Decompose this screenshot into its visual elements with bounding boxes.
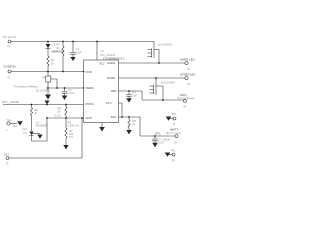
wire divider node rail bbox=[47, 117, 84, 119]
svg-text:J8: J8 bbox=[172, 159, 175, 163]
svg-text:BT1: BT1 bbox=[156, 132, 162, 136]
ground under C1 bbox=[70, 57, 75, 61]
node BAT+ test point bbox=[178, 93, 195, 109]
svg-text:TP4: TP4 bbox=[7, 118, 12, 122]
ground under R7 bbox=[63, 145, 69, 149]
svg-text:BAT+_SENSE: BAT+_SENSE bbox=[2, 100, 19, 104]
svg-text:TP1: TP1 bbox=[172, 112, 177, 116]
resistor R7 bbox=[65, 118, 74, 145]
capacitor C1 bbox=[70, 42, 82, 58]
node TP2 with ground bbox=[165, 149, 176, 163]
svg-text:BAT: BAT bbox=[111, 115, 117, 119]
capacitor C3 bbox=[62, 88, 75, 96]
resistor R6 bbox=[58, 105, 68, 119]
svg-text:1%: 1% bbox=[23, 131, 27, 135]
wire NTC pin routing bbox=[119, 103, 123, 117]
wire top +12V rail bbox=[11, 41, 154, 43]
svg-text:J1: J1 bbox=[7, 44, 10, 48]
svg-text:CHRG-LED: CHRG-LED bbox=[180, 58, 195, 62]
svg-text:CHRG: CHRG bbox=[107, 61, 115, 65]
svg-text:MBR0520: MBR0520 bbox=[52, 50, 65, 54]
svg-text:DONE: DONE bbox=[107, 76, 115, 80]
node top rail junctions bbox=[47, 41, 49, 43]
svg-text:J5: J5 bbox=[187, 82, 190, 86]
node TP1 with ground bbox=[166, 112, 177, 126]
wire TERM rail bbox=[46, 87, 84, 89]
connector DONE LED bbox=[180, 73, 195, 86]
diode D1 bbox=[46, 42, 65, 54]
ground under C4 bbox=[126, 98, 132, 102]
ground under C7 bbox=[152, 143, 158, 147]
svg-text:J9: J9 bbox=[174, 141, 177, 145]
svg-text:J2: J2 bbox=[7, 76, 10, 80]
svg-text:AD589JR: AD589JR bbox=[36, 124, 48, 128]
svg-text:TP: TP bbox=[101, 50, 105, 54]
svg-text:(B or C size): (B or C size) bbox=[166, 131, 181, 135]
svg-text:CONN 5V: CONN 5V bbox=[4, 65, 17, 69]
svg-text:1%: 1% bbox=[69, 135, 73, 139]
wire corner to Q1 bbox=[153, 42, 155, 48]
svg-text:TP2: TP2 bbox=[171, 149, 176, 153]
connector battery bbox=[166, 128, 181, 145]
wire CHRG pin to LED conn bbox=[119, 62, 186, 64]
svg-text:Q1 AO3401: Q1 AO3401 bbox=[36, 89, 51, 93]
resistor R5 bbox=[30, 105, 38, 132]
connector J3 battery minus bbox=[4, 153, 10, 166]
svg-text:VCC: VCC bbox=[99, 62, 105, 66]
svg-text:J7: J7 bbox=[173, 122, 176, 126]
svg-text:NTC: NTC bbox=[106, 101, 112, 105]
svg-text:J3: J3 bbox=[6, 162, 9, 166]
svg-text:J10: J10 bbox=[13, 124, 18, 128]
ground under Q1 bbox=[45, 88, 51, 100]
svg-text:(Do not place): (Do not place) bbox=[178, 96, 195, 100]
transistor Q1 (termination) bbox=[42, 72, 57, 89]
connector CHRG LED bbox=[180, 58, 195, 71]
node TERM junctions bbox=[47, 87, 49, 89]
wire REF pin to TP bbox=[119, 91, 143, 100]
wire battery rail bbox=[140, 135, 175, 137]
svg-text:REF: REF bbox=[111, 89, 117, 93]
capacitor C7 battery bbox=[152, 132, 170, 145]
svg-text:STDBY-LED: STDBY-LED bbox=[180, 73, 195, 77]
connector J2 bbox=[4, 65, 17, 80]
power flag arrow bbox=[45, 101, 50, 105]
op-amp U2 reference AD589 bbox=[22, 118, 47, 141]
svg-text:DC 12V IN: DC 12V IN bbox=[3, 35, 16, 39]
resistor R2 bbox=[56, 42, 64, 72]
svg-text:5VIN: 5VIN bbox=[86, 70, 92, 74]
transistor Q2 top right bbox=[148, 42, 173, 63]
ground under C3 bbox=[62, 96, 68, 101]
svg-text:Termination Method: Termination Method bbox=[14, 85, 38, 89]
svg-text:6.49k 1%: 6.49k 1% bbox=[68, 124, 80, 128]
capacitor C4 bbox=[126, 91, 137, 99]
node 5V junctions bbox=[47, 71, 49, 73]
transistor Q3 mid right bbox=[150, 78, 176, 100]
wire DONE pin rail bbox=[119, 77, 186, 79]
svg-text:J4: J4 bbox=[187, 67, 190, 71]
svg-text:PROG: PROG bbox=[86, 102, 94, 106]
svg-text:R4: R4 bbox=[42, 76, 46, 80]
svg-text:6.3V: 6.3V bbox=[158, 140, 164, 144]
svg-text:10uF: 10uF bbox=[76, 50, 82, 54]
resistor R8 bbox=[128, 117, 136, 130]
svg-text:D1: D1 bbox=[52, 43, 56, 47]
svg-text:J6: J6 bbox=[183, 105, 186, 109]
resistor R1 bbox=[47, 48, 55, 71]
wire IC VCC drop bbox=[96, 42, 98, 61]
op-amp U1 charger IC box bbox=[84, 50, 125, 123]
wire REF rail to test point bbox=[142, 99, 183, 101]
svg-text:BAT-: BAT- bbox=[4, 153, 10, 157]
wire bottom rail bbox=[9, 118, 82, 158]
svg-text:0.1%: 0.1% bbox=[55, 113, 62, 117]
node left TP ground bbox=[6, 118, 23, 132]
node pin dots bbox=[83, 71, 84, 72]
svg-text:GND: GND bbox=[86, 116, 92, 120]
ground under R8 bbox=[126, 130, 132, 134]
svg-text:1uF: 1uF bbox=[132, 94, 137, 98]
wire 5V rail bbox=[11, 71, 84, 73]
svg-text:0.1uF: 0.1uF bbox=[68, 91, 75, 95]
svg-text:TERM: TERM bbox=[86, 86, 95, 90]
svg-text:Q3 AO3401: Q3 AO3401 bbox=[161, 80, 176, 84]
connector J1 bbox=[3, 35, 16, 48]
ground IC GND pin bbox=[99, 123, 105, 132]
wire BAT pin to battery bbox=[119, 117, 141, 136]
svg-text:Q2 AO3401: Q2 AO3401 bbox=[158, 42, 173, 46]
